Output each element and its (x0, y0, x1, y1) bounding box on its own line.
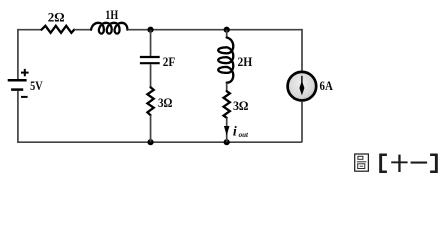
caption glyph TU inner top mouth (358, 156, 363, 159)
inductor 2H (218, 38, 233, 83)
wire left vertical lower (battery to corner) (17, 91, 19, 142)
node bottom of capacitor branch (147, 139, 153, 145)
svg-text:6A: 6A (320, 78, 334, 93)
wire between 2ohm resistor and 1H inductor (74, 29, 91, 31)
caption right lenticular bracket (430, 154, 438, 174)
wire capacitor to 3ohm resistor (150, 64, 152, 87)
voltage source 5V battery (8, 80, 27, 89)
wire left vertical upper (corner to battery) (17, 29, 19, 79)
wire inductor to top-right corner (127, 29, 302, 31)
svg-text:3Ω: 3Ω (233, 98, 248, 113)
caption glyph ten (cross) (391, 155, 407, 172)
wire 3ohm resistor to bottom node (150, 115, 152, 142)
svg-text:1H: 1H (105, 7, 118, 22)
svg-text:2F: 2F (163, 54, 175, 69)
caption glyph TU inner bottom box (358, 164, 365, 169)
svg-text:2H: 2H (238, 54, 253, 69)
label + polarity (21, 69, 29, 76)
node top of 2H branch (224, 27, 230, 33)
wire 3ohm resistor to bottom node with i_out (226, 118, 228, 143)
capacitor 2F (140, 57, 160, 63)
wire capacitor branch upper (150, 30, 152, 56)
label - polarity (21, 96, 28, 98)
resistor 3ohm right branch (224, 91, 230, 118)
caption left lenticular bracket (379, 154, 387, 174)
resistor 3ohm middle branch (147, 87, 153, 115)
wire 2H branch top stub (226, 30, 228, 38)
wire right vertical lower (current source to corner) (301, 101, 303, 142)
caption glyph TU inner tick (360, 165, 364, 167)
resistor 2ohm (42, 26, 75, 33)
svg-text:i: i (233, 124, 237, 139)
caption: figure [eleven] in CJK drawn as vector glyphs (355, 154, 369, 171)
wire bottom horizontal (17, 141, 302, 143)
svg-text:5V: 5V (30, 78, 43, 93)
caption glyph TU (figure) outer box (355, 154, 369, 171)
label i_out (233, 124, 249, 139)
caption glyph TU middle bar (357, 161, 366, 163)
wire 2H inductor to 3ohm resistor (226, 83, 228, 92)
wire right vertical upper (corner to current source) (301, 29, 303, 71)
node bottom of 2H branch (224, 139, 230, 145)
svg-text:2Ω: 2Ω (48, 10, 65, 25)
svg-text:out: out (239, 131, 249, 139)
wire top-left horizontal (corner to 2-ohm resistor) (18, 29, 42, 31)
output current arrow i_out (224, 126, 230, 135)
inductor 1H (91, 23, 127, 34)
current source 6A (288, 72, 317, 101)
node top of capacitor branch (147, 27, 153, 33)
caption glyph one (bar) (411, 162, 428, 164)
svg-text:3Ω: 3Ω (158, 95, 172, 110)
